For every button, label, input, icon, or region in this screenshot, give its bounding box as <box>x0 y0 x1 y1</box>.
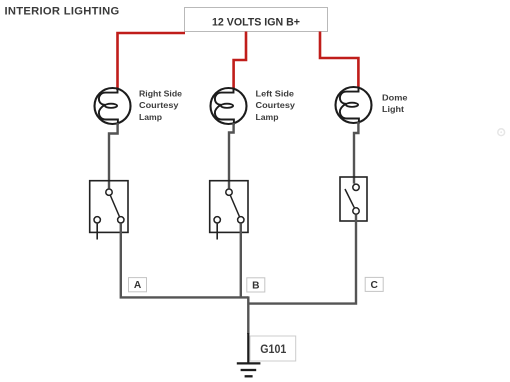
svg-text:Lamp: Lamp <box>139 113 162 122</box>
switch S3 (dome light switch) <box>340 177 367 221</box>
svg-text:Light: Light <box>382 105 404 114</box>
svg-text:12 VOLTS IGN B+: 12 VOLTS IGN B+ <box>212 17 300 29</box>
switch S2 (left side courtesy lamp switch) <box>210 181 248 240</box>
lamp dome light <box>336 87 372 124</box>
node C <box>365 277 383 291</box>
wire red from B+ to dome light <box>320 32 358 88</box>
wire red from B+ to right side courtesy lamp <box>118 33 186 90</box>
svg-text:Courtesy: Courtesy <box>256 101 296 110</box>
svg-text:Right Side: Right Side <box>139 89 182 98</box>
svg-text:G101: G101 <box>260 343 286 356</box>
wire switch S1 to node A and bus <box>121 224 249 298</box>
switch S1 (right side courtesy lamp switch) <box>90 181 128 240</box>
label Left Side Courtesy Lamp <box>256 89 296 121</box>
svg-text:Courtesy: Courtesy <box>139 101 179 110</box>
wire lamp3 to switch S3 <box>354 122 358 184</box>
svg-text:INTERIOR LIGHTING: INTERIOR LIGHTING <box>5 6 120 18</box>
wire switch S3 to node C and bus <box>248 215 356 304</box>
wire red from B+ to left side courtesy lamp <box>234 32 246 90</box>
label Dome Light <box>382 94 408 115</box>
power source box 12 VOLTS IGN B+ <box>185 8 328 32</box>
wire bus to ground <box>247 296 249 334</box>
svg-text:Left Side: Left Side <box>256 89 295 98</box>
wire lamp2 to switch S2 <box>229 123 234 188</box>
watermark ring <box>498 129 505 136</box>
ground symbol <box>237 363 261 376</box>
svg-text:A: A <box>134 280 142 291</box>
label Right Side Courtesy Lamp <box>139 89 182 121</box>
wire lamp1 to switch S1 <box>109 123 118 188</box>
ground G101 label box <box>250 336 296 361</box>
svg-text:Lamp: Lamp <box>256 113 279 122</box>
lamp left side courtesy lamp <box>211 88 247 125</box>
svg-text:Dome: Dome <box>382 94 408 103</box>
node A <box>129 278 147 292</box>
lamp right side courtesy lamp <box>95 88 131 125</box>
svg-text:B: B <box>252 280 259 291</box>
wire switch S2 to bus (node B) <box>240 224 242 298</box>
svg-text:C: C <box>371 280 379 291</box>
node B <box>247 278 265 292</box>
